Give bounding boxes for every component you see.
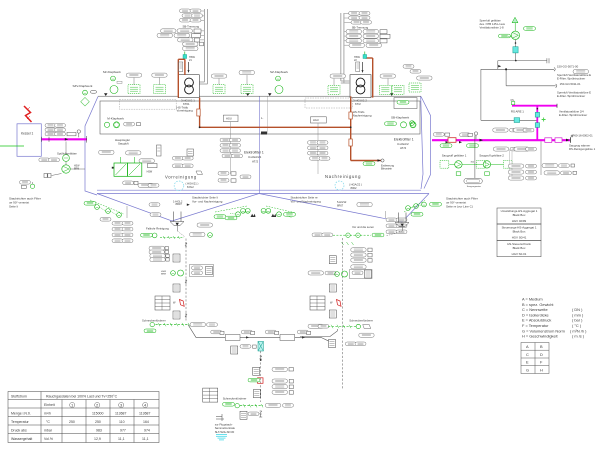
svg-text:( mm ): ( mm ) [572, 312, 584, 317]
HGU box left [223, 115, 238, 174]
right capsule columns [508, 141, 576, 180]
svg-text:H: H [540, 367, 543, 372]
sample point box [460, 133, 473, 137]
svg-text:E-Filter /Sprühtrockner: E-Filter /Sprühtrockner [557, 94, 585, 98]
left hopper slope instruments [84, 202, 133, 243]
vent circle on magenta [474, 132, 477, 139]
svg-text:250: 250 [69, 420, 75, 424]
svg-text:HSW: HSW [74, 166, 80, 168]
right hopper note text [446, 197, 478, 209]
svg-text:Stoffstrom: Stoffstrom [11, 394, 27, 398]
RS ARE 1 valve station [511, 100, 525, 114]
top right piping [481, 58, 557, 120]
ESP body rect [100, 101, 420, 134]
SZ-Klapfwerk label mid [270, 70, 289, 94]
svg-text:Vol.%: Vol.% [44, 437, 53, 441]
svg-text:Black Box: Black Box [513, 230, 526, 234]
svg-text:Einheit: Einheit [44, 403, 55, 407]
svg-text:M-Klapfwerk: M-Klapfwerk [107, 117, 124, 121]
svg-text:( bar ): ( bar ) [572, 318, 583, 323]
SB-Klapfwerk group [385, 115, 417, 128]
svg-text:W: W [330, 301, 333, 305]
svg-text:Temperatur: Temperatur [11, 420, 30, 424]
svg-text:2: 2 [96, 402, 99, 407]
svg-text:Bleustein: Bleustein [381, 166, 393, 170]
svg-text:Black Box: Black Box [513, 246, 526, 250]
svg-text:1: 1 [71, 402, 74, 407]
svg-text:Rauchgasdaten bei 100% Last un: Rauchgasdaten bei 100% Last und Tv=250°C [46, 394, 118, 398]
Elektrofilter label 1 [244, 151, 264, 164]
svg-text:A: A [526, 344, 529, 349]
svg-text:SLT/324+SF/30: SLT/324+SF/30 [215, 430, 235, 434]
bottom-left data table [8, 392, 159, 443]
svg-text:SZ-Klapfwerk: SZ-Klapfwerk [103, 70, 122, 74]
svg-text:A = Medium: A = Medium [522, 297, 543, 302]
svg-text:Schneckenförderer: Schneckenförderer [223, 397, 247, 401]
svg-text:( HGA/22 ): ( HGA/22 ) [349, 183, 362, 187]
legend table [521, 343, 549, 374]
svg-text:C: C [526, 352, 529, 357]
svg-text:E: E [526, 360, 529, 365]
M-Klapfwerk group [104, 117, 140, 128]
svg-text:HGU: HGU [226, 117, 232, 121]
ESP vessel outline (blue) [85, 97, 431, 223]
svg-text:°C: °C [46, 420, 50, 424]
svg-text:Seite re (zur Line C): Seite re (zur Line C) [446, 205, 473, 209]
LEFT CHAIN [141, 223, 218, 333]
svg-text:m³/h: m³/h [44, 411, 51, 415]
note boxes right [497, 208, 541, 257]
svg-text:Saugzuff gebläse 2: Saugzuff gebläse 2 [479, 154, 504, 158]
svg-text:B = spez. Gewicht: B = spez. Gewicht [522, 302, 554, 307]
brown line markers [197, 109, 352, 146]
green feed line [0, 145, 24, 147]
brown piping [178, 58, 381, 161]
Saugzug fans [440, 135, 512, 188]
T2 label [353, 99, 367, 107]
svg-text:977: 977 [120, 428, 126, 432]
svg-text:HGV 40/99: HGV 40/99 [512, 219, 527, 223]
left hopper note text [9, 197, 41, 209]
ESP roof line [98, 95, 421, 97]
svg-text:21: 21 [189, 59, 192, 62]
svg-text:E-Filter /Sprühtrockner: E-Filter /Sprühtrockner [557, 77, 585, 81]
T1 instrument cluster rows [157, 9, 204, 51]
svg-text:150-GO-5071-00: 150-GO-5071-00 [557, 64, 579, 68]
Kessel 1 [17, 124, 41, 157]
svg-text:( °C ): ( °C ) [572, 323, 582, 328]
svg-text:B: B [540, 344, 543, 349]
capsule stack A [220, 138, 243, 158]
inner slope instruments V1 right [214, 208, 256, 219]
right edge capsule [573, 70, 589, 74]
svg-text:Fallrohr Reinigung: Fallrohr Reinigung [146, 227, 169, 231]
svg-text:8R07: 8R07 [337, 203, 344, 207]
Hauptregler damper cluster [99, 138, 194, 187]
svg-text:Saugzuff gebläse 1: Saugzuff gebläse 1 [442, 154, 467, 158]
svg-text:Wassergehalt: Wassergehalt [11, 437, 32, 441]
roof instrument units [126, 71, 404, 95]
cyan valve on loop line [514, 118, 520, 123]
T2 top valve group [354, 52, 367, 74]
svg-text:Vor- und Nachreinigung: Vor- und Nachreinigung [192, 200, 223, 204]
T2 instrument cluster rows [346, 12, 390, 48]
inner slope instruments V2 left [261, 208, 295, 217]
svg-text:P60-16-0002-01: P60-16-0002-01 [573, 134, 594, 138]
Sperrluft fan assembly top right [499, 17, 536, 60]
svg-text:Vorreinigung: Vorreinigung [177, 109, 194, 113]
pipe stub labels [557, 64, 591, 117]
CENTER CHAIN [203, 341, 294, 440]
VMC capsule right of T2 [394, 65, 432, 109]
magenta main line right [432, 139, 570, 141]
svg-text:Kessel 1: Kessel 1 [21, 132, 33, 136]
capsule stack B [308, 141, 331, 161]
svg-text:HGU: HGU [313, 118, 319, 122]
svg-text:( HGA/21 ): ( HGA/21 ) [186, 182, 199, 186]
Spuelluft fan group left [20, 152, 81, 189]
magenta tick marks [42, 136, 87, 143]
legend text bottom right [522, 297, 587, 339]
hex label row above main magenta [493, 128, 534, 132]
svg-text:( DN ): ( DN ) [572, 307, 583, 312]
svg-text:150-GO-5011-01: 150-GO-5011-01 [560, 82, 581, 86]
svg-text:( m³N /h ): ( m³N /h ) [570, 328, 587, 333]
svg-text:Schneckenförderer: Schneckenförderer [349, 319, 373, 323]
svg-text:OS.: OS. [511, 100, 515, 102]
V2 outlet [386, 213, 409, 237]
svg-text:G = Volumenstrom Norm: G = Volumenstrom Norm [522, 328, 565, 333]
svg-text:Vor- und Nachreinigung: Vor- und Nachreinigung [291, 200, 322, 204]
svg-text:Schneckenförderer: Schneckenförderer [142, 318, 166, 322]
HS-Traefo dashed zone left [119, 100, 176, 110]
RIGHT CHAIN [300, 225, 384, 390]
green cross valve [542, 118, 546, 122]
svg-text:D = Isolierdicke: D = Isolierdicke [522, 312, 549, 317]
svg-text:F: F [540, 360, 543, 365]
right hopper slope instruments [385, 202, 441, 234]
svg-text:Saugluft: Saugluft [118, 142, 129, 146]
svg-text:SZV-Klapfwerk: SZV-Klapfwerk [73, 84, 93, 88]
svg-text:6T/2: 6T/2 [355, 102, 361, 106]
svg-text:Ventilationslinie 1-8: Ventilationslinie 1-8 [480, 26, 505, 30]
transformer T2 rect [350, 75, 371, 98]
svg-text:22: 22 [354, 59, 357, 62]
HS-Traefo dashed zone right [305, 98, 353, 108]
svg-text:HGV S0/41: HGV S0/41 [512, 236, 527, 240]
svg-text:3: 3 [120, 402, 123, 407]
T1 top valve group [179, 52, 196, 74]
section separator [259, 97, 261, 194]
svg-text:302: 302 [471, 161, 475, 163]
svg-text:SZ-Klapfwerk: SZ-Klapfwerk [270, 70, 289, 74]
svg-text:113687: 113687 [139, 411, 150, 415]
svg-text:164: 164 [143, 420, 149, 424]
Kessel outlet instrument cluster [45, 124, 81, 138]
main magenta end flange [566, 135, 573, 143]
Entleerung drain [363, 159, 395, 170]
svg-text:3-HGA/21: 3-HGA/21 [248, 155, 262, 159]
svg-text:8.8L2: 8.8L2 [187, 185, 194, 189]
svg-text:110: 110 [119, 420, 125, 424]
T1 label [181, 99, 195, 107]
Sperrluft text block [480, 19, 506, 30]
svg-text:G: G [526, 367, 529, 372]
svg-text:8002: 8002 [351, 186, 357, 190]
svg-text:RS-Reinigungslinie 1: RS-Reinigungslinie 1 [569, 147, 596, 151]
svg-text:E = Absolutdruck: E = Absolutdruck [522, 318, 551, 323]
magenta upper line right [512, 105, 557, 107]
svg-text:974: 974 [144, 428, 150, 432]
svg-text:Vorreinigung: Vorreinigung [165, 175, 197, 180]
svg-text:RS ARE 1: RS ARE 1 [511, 110, 524, 114]
magenta upper end cap [556, 104, 558, 108]
svg-text:11,1: 11,1 [142, 437, 149, 441]
gray bus T2 [341, 13, 350, 83]
svg-text:HSW: HSW [147, 170, 153, 173]
svg-text:983: 983 [96, 428, 102, 432]
svg-text:4: 4 [144, 402, 147, 407]
svg-text:Elektrofilter 1: Elektrofilter 1 [244, 151, 264, 155]
V1 outlet [149, 199, 190, 237]
gray bus T1 [200, 9, 208, 84]
svg-text:AT/2: AT/2 [252, 160, 258, 164]
svg-text:AT/2: AT/2 [400, 146, 406, 150]
transformer T1 rect [178, 75, 199, 98]
svg-text:Nachreinigung: Nachreinigung [325, 174, 361, 179]
svg-text:W: W [173, 301, 176, 305]
svg-text:F = Temperatur: F = Temperatur [522, 323, 549, 328]
lightning bolt [24, 106, 32, 122]
svg-text:SB-Trennung: SB-Trennung [183, 25, 200, 29]
svg-text:Seite li: Seite li [9, 205, 18, 209]
V2 label [337, 200, 372, 207]
svg-text:11,1: 11,1 [118, 437, 125, 441]
svg-text:H = Geschwindigkeit: H = Geschwindigkeit [522, 334, 558, 339]
svg-text:SB-Klapfwerk: SB-Klapfwerk [391, 115, 410, 119]
svg-text:113687: 113687 [115, 411, 126, 415]
svg-text:8R07: 8R07 [176, 202, 183, 206]
HGU box right [311, 117, 327, 174]
svg-text:( m /s ): ( m /s ) [572, 334, 585, 339]
svg-text:Menge i.N.tr.: Menge i.N.tr. [11, 411, 31, 415]
mid connector units [196, 171, 251, 182]
hopper slope dashed indicators [90, 200, 426, 214]
svg-text:mbar: mbar [44, 428, 53, 432]
svg-text:Nachreinigung: Nachreinigung [353, 113, 372, 117]
capsule rows below magenta [493, 147, 536, 151]
capsule above magenta start [433, 133, 449, 137]
SZV-Klapfwerk label [73, 84, 97, 106]
svg-text:BRM: BRM [74, 168, 79, 170]
T2 bus rungs [344, 14, 351, 46]
svg-text:Black Box: Black Box [513, 213, 526, 217]
svg-text:Vor und die seren: Vor und die seren [352, 225, 374, 229]
svg-text:Druck abs: Druck abs [11, 428, 27, 432]
svg-text:SB-Trennung: SB-Trennung [352, 26, 369, 30]
svg-text:L.: L. [261, 116, 264, 120]
magenta inline spools [448, 138, 456, 143]
svg-text:12,9: 12,9 [94, 437, 101, 441]
svg-text:E-Filter /Sprühtrockner: E-Filter /Sprühtrockner [559, 113, 587, 117]
svg-text:BRM: BRM [161, 274, 166, 276]
hopper center notes [192, 196, 321, 204]
magenta flue line left (Kessel outlet) [40, 138, 87, 140]
Elektrofilter label 2 [394, 138, 414, 150]
svg-text:115000: 115000 [92, 411, 103, 415]
svg-text:D: D [540, 352, 543, 357]
cyan valves on magenta vertical [535, 112, 539, 117]
svg-text:Saugzugmotor: Saugzugmotor [467, 185, 481, 188]
svg-text:250: 250 [95, 420, 101, 424]
T1 bus rungs [200, 11, 205, 44]
SZ-Klapfwerk label left [103, 70, 122, 94]
magenta vertical right [536, 106, 538, 141]
svg-text:HGV S0-01: HGV S0-01 [512, 252, 527, 256]
main ash collecting line [188, 325, 330, 342]
svg-text:C = Nennweite: C = Nennweite [522, 307, 548, 312]
